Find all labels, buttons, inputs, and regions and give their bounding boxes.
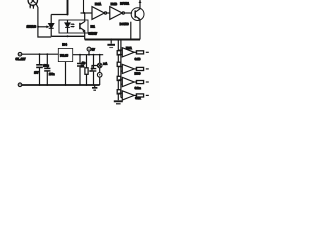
svg-text:78L05: 78L05	[60, 53, 68, 57]
wire to top edge at x83.5	[83, 0, 85, 13]
ground symbol on rail	[92, 85, 97, 90]
resistor R3 on bus	[117, 76, 121, 80]
svg-text:1N4148: 1N4148	[27, 24, 37, 28]
svg-text:C.3B: C.3B	[135, 58, 141, 61]
wire collector node to inverter input	[81, 12, 93, 14]
svg-text:IC3C: IC3C	[135, 73, 141, 76]
comparator IC3C	[118, 77, 134, 86]
wire bold supply stub to top edge	[67, 0, 69, 15]
capacitor C3	[77, 55, 83, 85]
junction dot LED cathode on return	[67, 35, 69, 37]
svg-text:16V: 16V	[34, 71, 39, 74]
output resistor R6	[134, 67, 149, 70]
junction dot at LED anode feed	[67, 14, 69, 16]
wire IC2B out to base T2	[124, 12, 132, 14]
output resistor R8	[134, 94, 149, 97]
phototransistor detector T1 (circle cut by top edge)	[28, 0, 37, 5]
wire rail y14.5 (D1 anode to LED anode)	[51, 14, 67, 16]
capacitor/ground bar under rail	[107, 40, 115, 48]
svg-text:mA: mA	[103, 62, 107, 65]
svg-text:C.3m: C.3m	[135, 87, 142, 90]
wire node A right with arrowhead	[38, 25, 49, 28]
potentiometer P1	[85, 55, 98, 85]
output resistor R7	[134, 81, 149, 84]
wire common return y36.3 to opto emitter	[51, 35, 84, 37]
wire main rail y39.5	[85, 39, 140, 41]
node A junction dot	[37, 26, 39, 28]
transistor T2 BFY51	[131, 8, 144, 21]
light arrows into T1	[29, 5, 34, 9]
resistor R1 on bus	[117, 51, 121, 55]
battery minus terminal	[18, 83, 22, 87]
junction dots on ground rail	[39, 84, 41, 86]
wire stub below T2	[130, 22, 132, 40]
wire IC2A out to IC2B in	[107, 12, 110, 14]
wire opto emitter down to return/rail	[84, 33, 86, 40]
svg-text:IC1: IC1	[91, 24, 96, 28]
wire node A down and right to common return	[38, 27, 51, 37]
supply flag circle 5V	[87, 47, 91, 55]
divider bus (left chain line)	[117, 40, 119, 101]
terminal socket K1	[97, 55, 102, 68]
svg-text:IC4: IC4	[62, 42, 67, 46]
resistor R2 on bus	[117, 62, 121, 66]
regulator IC4 box	[58, 48, 72, 61]
op-to-coupler IC1 box	[59, 20, 88, 33]
svg-text:IC2B: IC2B	[111, 2, 117, 6]
signal bus (right line)	[120, 40, 122, 98]
ground symbol under bus	[114, 101, 123, 104]
svg-text:IC2A: IC2A	[95, 2, 101, 6]
resistor R4 on bus	[117, 90, 121, 94]
capacitor C1	[36, 54, 43, 85]
junction dot collector node	[83, 12, 85, 14]
comparator IC3D	[118, 91, 134, 100]
svg-text:C.3x: C.3x	[135, 97, 141, 100]
capacitor C4	[91, 55, 97, 85]
battery plus terminal	[18, 52, 22, 56]
junction dot C1 tap	[39, 53, 41, 55]
junction dot C2 tap	[46, 53, 48, 55]
capacitor C2	[44, 54, 50, 85]
svg-text:BFY51: BFY51	[120, 1, 129, 5]
wire from detector down to node A	[36, 4, 38, 27]
phototransistor inside IC1	[80, 20, 85, 33]
wire supply rail to regulator	[22, 53, 59, 55]
junction dots on 5V rail	[79, 54, 81, 56]
inverter IC2B	[110, 7, 125, 20]
svg-text:100µ: 100µ	[43, 65, 49, 68]
svg-text:CNY17: CNY17	[88, 31, 97, 35]
wire regulator output rail y54.7	[73, 54, 104, 56]
wire regulator ground pin	[65, 62, 67, 85]
svg-text:IC3A: IC3A	[126, 47, 132, 50]
svg-text:BC550: BC550	[120, 22, 129, 26]
svg-text:100n: 100n	[49, 73, 55, 76]
svg-text:9V...12V: 9V...12V	[16, 57, 26, 61]
wire collector T2 to top edge with arrowhead	[139, 0, 142, 9]
terminal socket K2	[97, 68, 102, 85]
comparator IC3B	[118, 64, 134, 73]
diode D1 1N4148 (vertical, pointing down)	[49, 15, 54, 37]
inverter IC2A	[92, 7, 107, 20]
junction dot rail at x111.2	[110, 38, 112, 40]
light arrows LED to phototransistor	[71, 23, 75, 27]
output resistor R5	[134, 51, 149, 54]
comparator IC3A	[118, 48, 134, 57]
wire opto collector up	[84, 13, 86, 20]
svg-text:5V: 5V	[92, 47, 95, 51]
LED inside IC1	[65, 20, 70, 33]
wire emitter T2 down	[139, 19, 141, 39]
wire ground rail	[22, 84, 100, 86]
